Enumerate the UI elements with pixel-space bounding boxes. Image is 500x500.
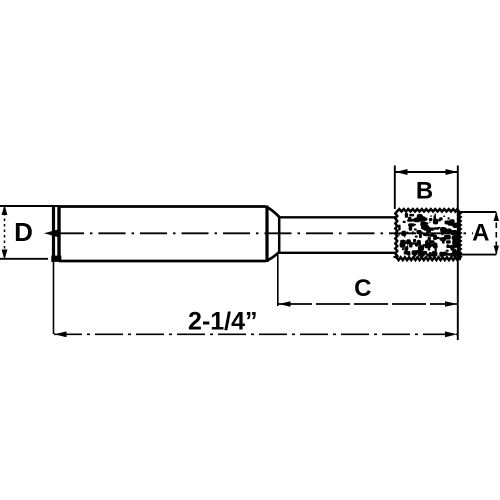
svg-text:B: B <box>416 177 433 204</box>
svg-text:A: A <box>472 219 489 246</box>
svg-text:C: C <box>354 275 371 302</box>
svg-text:2-1/4”: 2-1/4” <box>188 307 257 335</box>
svg-text:D: D <box>14 217 33 247</box>
